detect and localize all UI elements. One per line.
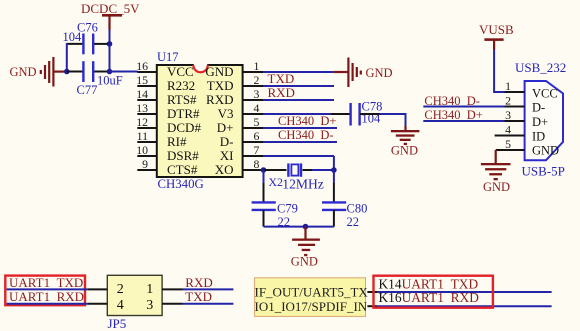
svg-text:X2: X2 <box>269 175 284 189</box>
svg-text:3: 3 <box>146 298 153 313</box>
wire JP5 pin3 TXD <box>183 303 234 305</box>
svg-text:CH340 D-: CH340 D- <box>278 128 334 142</box>
svg-text:RI#: RI# <box>167 134 187 149</box>
connector USB_232 body <box>515 60 566 179</box>
crystal X2 12MHz <box>269 163 324 191</box>
svg-text:12MHz: 12MHz <box>282 177 324 192</box>
svg-text:RXD: RXD <box>206 92 233 107</box>
svg-text:13: 13 <box>136 101 148 115</box>
capacitor C78 <box>351 100 383 126</box>
svg-text:14: 14 <box>136 87 148 101</box>
ground GND (USB pin5) <box>481 150 511 194</box>
wire right vertical <box>109 44 111 72</box>
capacitor C76 <box>63 21 98 55</box>
svg-text:R232: R232 <box>167 78 195 93</box>
capacitor C77 <box>77 61 123 97</box>
wire pin4 V3 to C78 <box>263 113 331 115</box>
connector JP5 body <box>107 275 162 331</box>
node A junction (top right of caps) <box>107 41 113 47</box>
svg-text:JP5: JP5 <box>108 316 127 331</box>
wire UART5_TX row <box>367 291 377 293</box>
svg-text:16: 16 <box>136 59 148 73</box>
svg-text:1: 1 <box>254 59 260 73</box>
wire left vertical <box>66 43 68 72</box>
wire SPDIF_IN row <box>367 305 377 307</box>
ground GND (left, rotated) <box>10 57 68 87</box>
svg-text:12: 12 <box>136 115 148 129</box>
svg-text:4: 4 <box>117 298 124 313</box>
svg-text:U17: U17 <box>157 50 179 64</box>
svg-text:8: 8 <box>254 157 260 171</box>
svg-text:10: 10 <box>136 143 148 157</box>
svg-text:DCD#: DCD# <box>167 120 201 135</box>
svg-text:2: 2 <box>505 94 511 108</box>
svg-text:3: 3 <box>254 87 260 101</box>
svg-text:GND: GND <box>366 66 393 80</box>
svg-text:VCC: VCC <box>167 64 194 79</box>
node D junction (pin8/XO) <box>261 167 267 173</box>
svg-text:TXD: TXD <box>185 289 212 304</box>
svg-text:1: 1 <box>146 282 153 297</box>
wire power stem to node A <box>109 30 111 45</box>
svg-text:CH340 D+: CH340 D+ <box>424 108 482 122</box>
U17 left pin stubs 16..9 <box>137 72 157 170</box>
JP5 pin numbers inside <box>117 282 154 313</box>
svg-text:GND: GND <box>291 255 318 269</box>
svg-text:6: 6 <box>254 129 260 143</box>
svg-text:CH340G: CH340G <box>158 177 204 191</box>
wire bottom cap row <box>67 71 83 73</box>
svg-text:4: 4 <box>505 123 511 137</box>
svg-text:XI: XI <box>220 148 234 163</box>
ground GND (crystal) <box>291 227 320 269</box>
U17 left pin numbers <box>136 59 148 171</box>
svg-text:D+: D+ <box>532 115 548 129</box>
wire pin3 RXD <box>263 99 334 101</box>
svg-text:UART1 RXD: UART1 RXD <box>9 289 84 304</box>
svg-text:USB-5P: USB-5P <box>522 163 565 178</box>
wire pin8 to crystal <box>264 169 287 171</box>
svg-text:D-: D- <box>532 101 545 115</box>
svg-text:RXD: RXD <box>268 85 295 100</box>
wire CH340_D- to USB pin2 <box>423 106 505 108</box>
wire C79 to rail <box>263 210 265 227</box>
svg-text:2: 2 <box>117 282 124 297</box>
JP5 pin stubs <box>87 289 182 303</box>
capacitor C80 <box>322 202 367 230</box>
svg-text:4: 4 <box>254 101 260 115</box>
ground GND (under C78) <box>391 126 420 158</box>
svg-text:DSR#: DSR# <box>167 148 199 163</box>
wire UART1_TXD to JP5 pin2 <box>7 288 88 290</box>
svg-text:GND: GND <box>532 144 559 158</box>
wire ground rail <box>264 226 334 228</box>
wire down to C80 <box>333 170 335 183</box>
wire pin5 D+ <box>263 127 337 129</box>
wire CH340_D+ to USB pin3 <box>423 120 505 122</box>
wire down to C79 <box>263 170 265 183</box>
red highlight box K14/K16 (right) <box>374 276 493 308</box>
U17 right pin names <box>205 64 233 177</box>
svg-text:GND: GND <box>391 144 418 158</box>
svg-text:V3: V3 <box>218 106 234 121</box>
wire top cap row <box>67 43 83 45</box>
svg-text:11: 11 <box>137 129 148 143</box>
svg-text:IF_OUT/UART5_TX: IF_OUT/UART5_TX <box>255 285 369 300</box>
svg-text:7: 7 <box>254 143 260 157</box>
svg-text:CH340 D+: CH340 D+ <box>278 114 336 128</box>
svg-text:104: 104 <box>63 30 83 44</box>
svg-text:GND: GND <box>483 180 510 194</box>
wire pin6 D- <box>263 141 337 143</box>
wire pin7 XI to crystal right node <box>263 155 334 157</box>
yellow net box (SPDIF nets) <box>255 278 366 317</box>
svg-text:TXD: TXD <box>207 78 234 93</box>
svg-text:10uF: 10uF <box>97 74 123 88</box>
ground GND (pin1, rotated right) <box>333 58 392 88</box>
capacitor C79 <box>252 202 298 230</box>
node B junction (bottom left of caps) <box>64 69 70 75</box>
wire pin2 TXD <box>263 85 334 87</box>
svg-text:D-: D- <box>220 134 234 149</box>
svg-text:C79: C79 <box>277 202 298 216</box>
op IC U17 CH340G body <box>157 50 243 191</box>
node F junction (rail center) <box>303 224 309 230</box>
svg-text:ID: ID <box>532 129 545 143</box>
svg-text:CTS#: CTS# <box>167 162 198 177</box>
svg-text:GND: GND <box>10 65 37 79</box>
USB_232 pin names <box>532 86 559 157</box>
svg-text:DTR#: DTR# <box>167 106 200 121</box>
svg-text:C80: C80 <box>347 202 368 216</box>
wire UART1_RXD to JP5 pin4 <box>7 303 88 305</box>
U17 right pin stubs 1..8 <box>243 72 263 170</box>
svg-text:1: 1 <box>505 79 511 93</box>
svg-text:C77: C77 <box>77 83 98 97</box>
U17 right pin numbers <box>254 59 260 171</box>
red highlight box UART1 labels (left) <box>5 276 85 306</box>
node E junction (crystal right) <box>331 167 337 173</box>
wire JP5 pin1 RXD <box>183 288 234 290</box>
svg-text:15: 15 <box>136 73 148 87</box>
power port DCDC_5V <box>81 1 140 30</box>
wire pin1 to GND <box>263 71 333 73</box>
svg-text:5: 5 <box>505 137 511 151</box>
svg-text:3: 3 <box>505 108 511 122</box>
svg-text:RXD: RXD <box>185 275 212 290</box>
svg-text:5: 5 <box>254 115 260 129</box>
wire C78 to gnd corner <box>360 113 380 115</box>
power port VUSB <box>479 22 514 50</box>
svg-text:UART1 TXD: UART1 TXD <box>9 275 83 290</box>
svg-text:VUSB: VUSB <box>479 22 514 37</box>
wire VUSB to USB pin1 <box>494 50 505 92</box>
USB_232 pin numbers <box>505 79 511 151</box>
svg-text:IO1_IO17/SPDIF_IN: IO1_IO17/SPDIF_IN <box>255 299 368 314</box>
node C junction (bottom right of caps) <box>107 69 113 75</box>
svg-text:DCDC_5V: DCDC_5V <box>81 1 140 16</box>
svg-text:K16UART1 RXD: K16UART1 RXD <box>379 290 480 305</box>
svg-text:9: 9 <box>142 157 148 171</box>
svg-text:GND: GND <box>205 64 233 79</box>
U17 left pin names <box>167 64 201 177</box>
wire C80 to rail <box>333 210 335 227</box>
wire to U17 pin 16 <box>110 71 138 73</box>
svg-text:XO: XO <box>215 162 234 177</box>
svg-text:TXD: TXD <box>268 71 295 86</box>
svg-text:RTS#: RTS# <box>167 92 197 107</box>
svg-text:VCC: VCC <box>532 86 558 100</box>
wire crystal to right node <box>303 169 313 171</box>
svg-text:USB_232: USB_232 <box>515 60 566 75</box>
USB_232 pin stubs 1..5 <box>495 92 525 150</box>
svg-text:D+: D+ <box>217 120 234 135</box>
svg-text:CH340 D-: CH340 D- <box>424 94 480 108</box>
svg-text:2: 2 <box>254 73 260 87</box>
svg-text:22: 22 <box>347 215 360 229</box>
